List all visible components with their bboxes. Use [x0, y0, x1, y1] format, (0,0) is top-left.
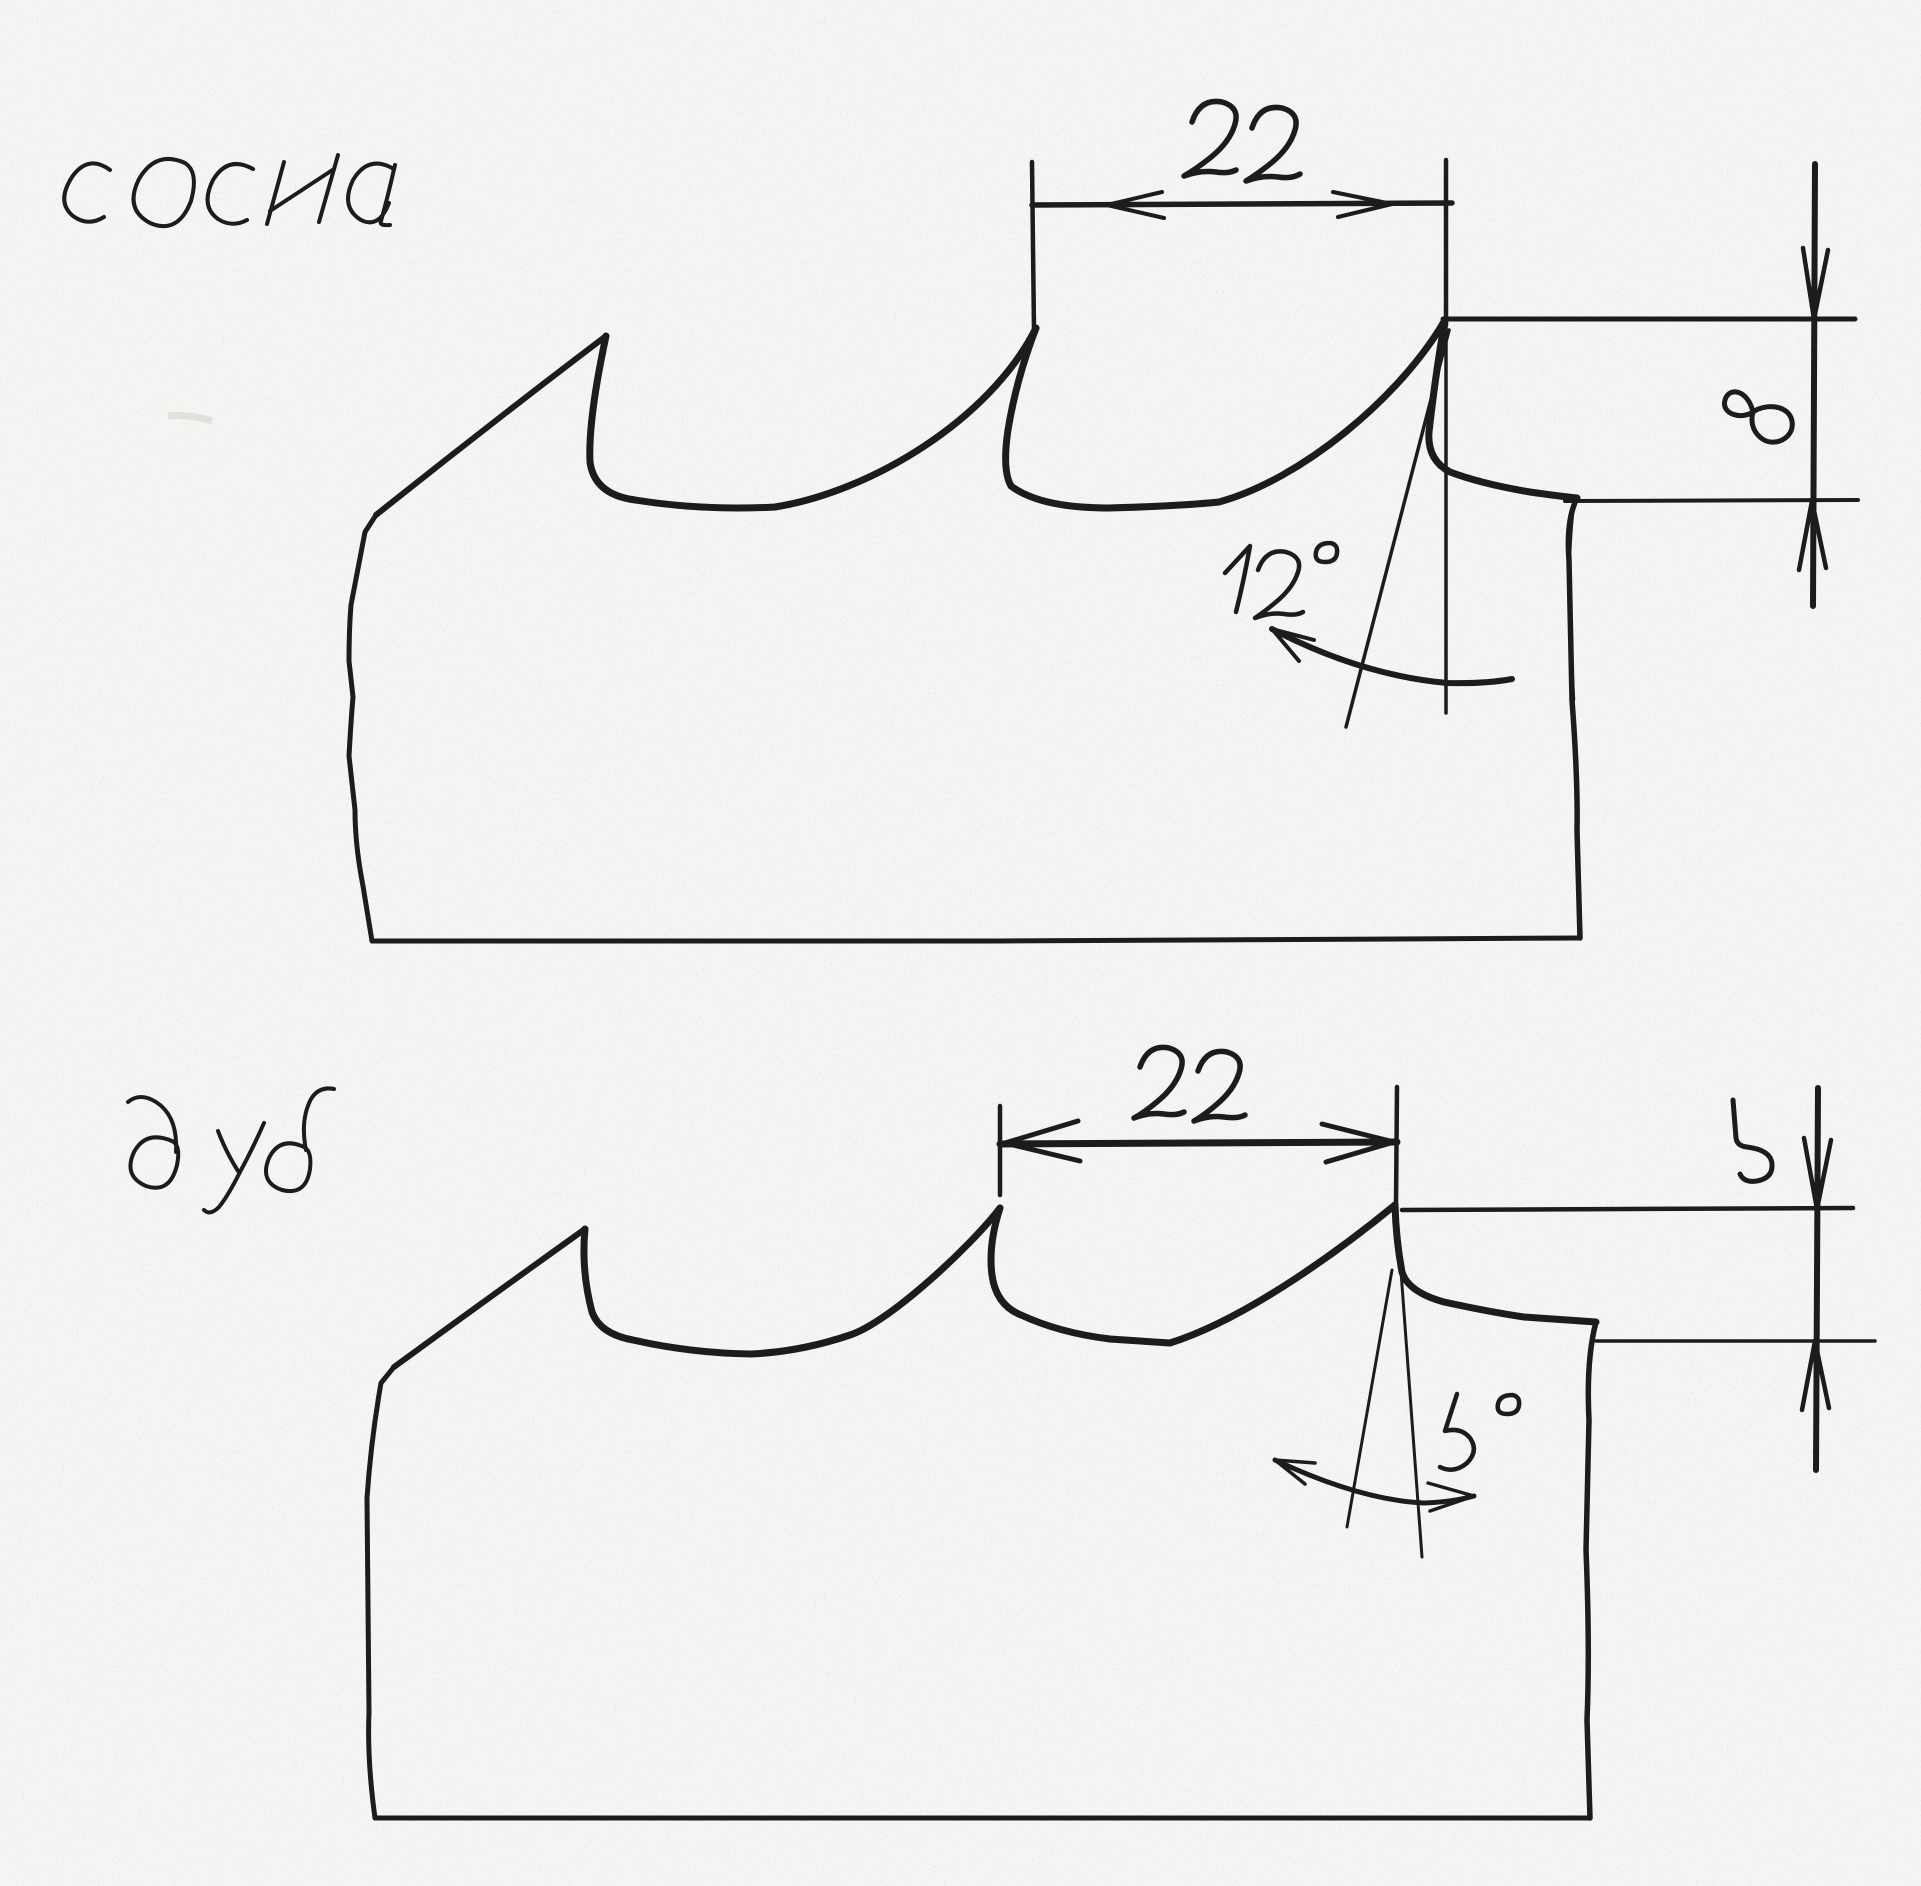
- дуб blade: tooth 1 face and gullet to tooth 2: [584, 1208, 1000, 1354]
- дуб dim 5: vertical dimension line: [1816, 1088, 1818, 1470]
- сосна angle 12: text "12°": [1225, 543, 1337, 618]
- сосна blade: right edge: [1568, 498, 1580, 938]
- дуб dim 22: right extension line: [1396, 1087, 1397, 1205]
- дуб blade: tooth 3 face and partial gullet: [1395, 1205, 1596, 1322]
- дуб dim 22: left extension tick: [998, 1106, 1003, 1195]
- дуб dim 5: upper arrowhead pointing down: [1804, 1138, 1831, 1209]
- сосна dim 8: rotated digit 8: [1724, 392, 1792, 442]
- дуб dim 22: dimension line: [1000, 1142, 1397, 1144]
- сосна dim 22: left arrowhead: [1107, 192, 1164, 218]
- дуб angle 5: text "5°": [1440, 1394, 1519, 1470]
- сосна blade: right edge inner doubled stroke: [1570, 505, 1574, 700]
- сосна dim 22: right arrowhead: [1333, 192, 1392, 217]
- сосна dim 22: dimension line: [1032, 203, 1452, 205]
- дуб dim 22: left arrowhead: [1005, 1121, 1080, 1161]
- дуб: horizontal line at gullet level (blade back right): [1596, 1339, 1875, 1343]
- дуб dim 5: rotated digit 5: [1733, 1100, 1772, 1181]
- дуб angle 5: thin vertical reference line: [1347, 1270, 1392, 1527]
- сосна dim 22: text "22": [1184, 101, 1300, 181]
- faint pencil smudge: [168, 416, 212, 421]
- дуб dim 22: right arrowhead: [1322, 1124, 1394, 1162]
- дуб: horizontal line at tooth-tip level to the right: [1402, 1208, 1853, 1210]
- дуб angle 5: left arc barb: [1275, 1460, 1315, 1484]
- сосна: horizontal line at gullet level (blade back right): [1565, 500, 1858, 501]
- дуб dim 22: text "22": [1134, 1047, 1245, 1121]
- дуб angle 5: slanted face line: [1397, 1217, 1422, 1557]
- сосна angle 12: arc: [1272, 629, 1512, 683]
- дуб blade: tooth 2 face and long gullet to tooth 3: [991, 1205, 1395, 1343]
- дуб angle 5: right arrowhead: [1428, 1483, 1474, 1511]
- сосна blade: bottom edge: [372, 938, 1580, 941]
- сосна dim 22: right extension line above tooth 3: [1444, 160, 1449, 325]
- дуб blade: bottom edge: [375, 1816, 1590, 1821]
- сосна angle 12: arc arrowhead: [1272, 629, 1314, 661]
- сосна angle 12: thin vertical reference line through tooth tip: [1444, 325, 1448, 713]
- сосна blade: tooth 3 face and partial gullet: [1429, 320, 1577, 498]
- label "сосна" (pine) handwritten top-left: [64, 155, 395, 226]
- сосна angle 12: slanted rake line: [1346, 330, 1449, 727]
- сосна dim 8: lower arrowhead pointing up: [1799, 501, 1826, 570]
- сосна blade: tooth 1 face and gullet to tooth 2: [590, 328, 1036, 508]
- дуб blade: left edge: [367, 1367, 394, 1818]
- дуб blade: tooth 1 back (diagonal to tip): [394, 1229, 585, 1367]
- сосна dim 8: upper arrowhead pointing down: [1803, 248, 1828, 319]
- сосна blade: tooth 2 face and gullet to tooth 3: [1006, 320, 1445, 508]
- сосна dim 22: left extension line above tooth 2: [1032, 162, 1034, 330]
- дуб blade: right edge: [1586, 1322, 1596, 1818]
- сосна blade: tooth 1 back (diagonal to tip): [376, 336, 606, 515]
- сосна dim 8: vertical dimension line: [1813, 164, 1815, 606]
- дуб angle 5: arc: [1275, 1460, 1474, 1503]
- сосна blade: left edge: [349, 515, 376, 941]
- сосна: horizontal line at tooth-tip level to the right: [1443, 317, 1855, 322]
- label "дуб" (oak) handwritten: [128, 1088, 334, 1212]
- дуб dim 5: lower arrowhead pointing up: [1802, 1341, 1829, 1410]
